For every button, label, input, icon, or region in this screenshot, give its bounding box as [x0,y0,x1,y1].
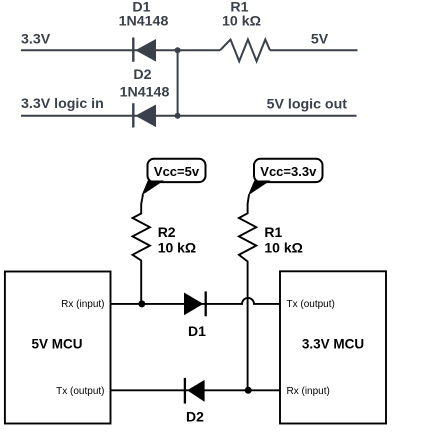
svg-text:D2: D2 [186,409,204,425]
svg-text:3.3V MCU: 3.3V MCU [302,336,364,351]
svg-text:D2: D2 [133,67,151,83]
svg-text:3.3V logic in: 3.3V logic in [21,96,104,112]
svg-text:Rx (input): Rx (input) [61,299,104,310]
svg-text:1N4148: 1N4148 [120,85,170,101]
svg-text:D1: D1 [188,323,206,339]
svg-text:5V: 5V [311,32,329,48]
svg-text:R1: R1 [264,224,282,240]
svg-text:Vcc=5v: Vcc=5v [154,164,200,179]
svg-text:5V logic out: 5V logic out [267,97,348,113]
svg-text:1N4148: 1N4148 [119,14,169,30]
svg-text:10 kΩ: 10 kΩ [222,14,261,30]
svg-text:R2: R2 [158,224,176,240]
svg-text:5V MCU: 5V MCU [31,336,82,351]
svg-text:Tx (output): Tx (output) [287,299,335,310]
svg-text:3.3V: 3.3V [21,32,51,48]
svg-text:Vcc=3.3v: Vcc=3.3v [260,164,317,179]
svg-text:10 kΩ: 10 kΩ [264,240,302,256]
svg-text:Tx (output): Tx (output) [56,386,104,397]
svg-text:10 kΩ: 10 kΩ [158,240,196,256]
svg-text:Rx (input): Rx (input) [287,386,330,397]
